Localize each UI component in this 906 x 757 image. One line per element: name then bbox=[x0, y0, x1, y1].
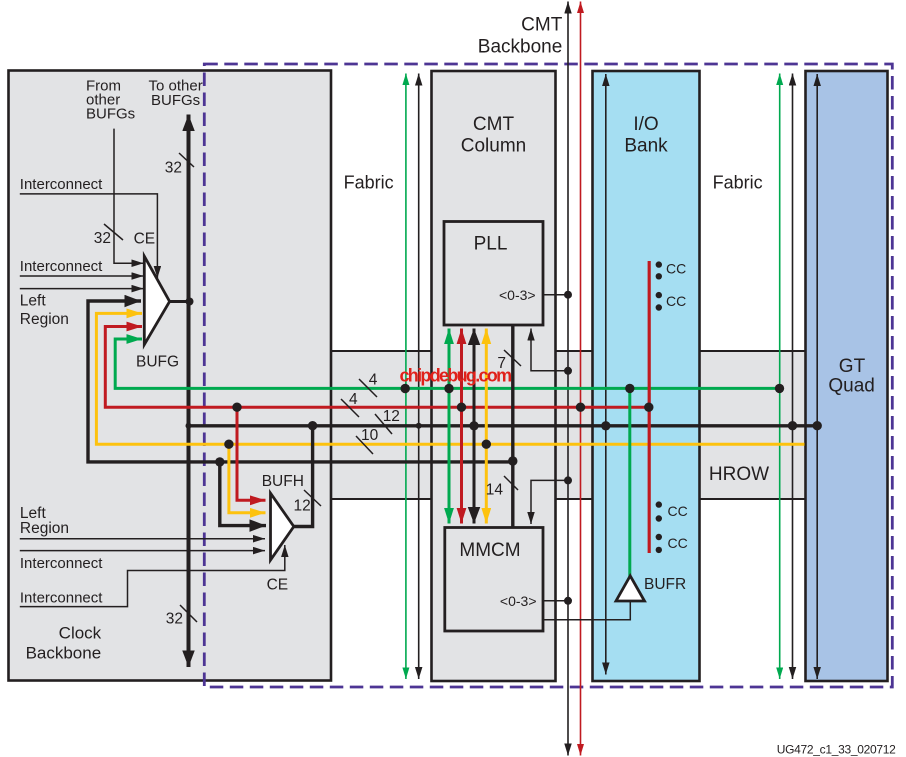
MMCM to BUFR wire bbox=[543, 601, 630, 620]
slash 32 from-other line bbox=[104, 224, 123, 240]
svg-text:UG472_c1_33_020712: UG472_c1_33_020712 bbox=[777, 743, 896, 757]
fabric2 green vertical arrow bbox=[779, 74, 781, 680]
svg-text:Backbone: Backbone bbox=[478, 36, 563, 57]
svg-text:GT: GT bbox=[839, 356, 866, 377]
yellow wire loop bbox=[96, 313, 804, 444]
BUFG CE wire bbox=[20, 194, 158, 278]
slash 12 BUFH riser bbox=[304, 490, 321, 506]
slash 4 red bbox=[341, 399, 359, 417]
green drop to BUFR bbox=[628, 388, 631, 577]
svg-text:CC: CC bbox=[666, 293, 686, 309]
svg-text:BUFGs: BUFGs bbox=[151, 92, 200, 109]
svg-text:<0-3>: <0-3> bbox=[499, 287, 536, 303]
GT quad black vertical arrow bbox=[816, 74, 818, 679]
label Clock Backbone bbox=[26, 624, 102, 663]
svg-text:CC: CC bbox=[668, 503, 688, 519]
svg-text:BUFH: BUFH bbox=[262, 473, 304, 490]
slash 32 spine bottom bbox=[180, 605, 197, 622]
black HROW horizontal 12 bbox=[189, 424, 818, 427]
GT Quad box bbox=[806, 71, 888, 681]
svg-text:CE: CE bbox=[134, 231, 156, 248]
BUFG interconnect input 2 bbox=[20, 275, 144, 277]
CMT backbone black vertical bbox=[567, 2, 569, 756]
svg-text:CMT: CMT bbox=[521, 15, 563, 36]
slash 12 black bbox=[375, 414, 392, 434]
label CMT Column bbox=[461, 114, 526, 157]
BUFG input from other BUFGs bbox=[114, 129, 144, 264]
green wire loop bbox=[115, 339, 779, 388]
svg-text:Backbone: Backbone bbox=[26, 644, 102, 663]
svg-text:Fabric: Fabric bbox=[713, 173, 763, 193]
svg-text:Fabric: Fabric bbox=[344, 173, 394, 193]
svg-text:Interconnect: Interconnect bbox=[20, 258, 103, 275]
svg-text:PLL: PLL bbox=[474, 234, 508, 255]
PLL 0-3 wire bbox=[543, 294, 568, 296]
svg-text:Interconnect: Interconnect bbox=[20, 590, 103, 607]
svg-text:14: 14 bbox=[486, 482, 504, 499]
svg-text:<0-3>: <0-3> bbox=[500, 593, 537, 609]
svg-text:4: 4 bbox=[349, 391, 358, 408]
PLL-MMCM green arrow bbox=[448, 329, 451, 524]
op BUFR triangle bbox=[616, 576, 645, 601]
svg-text:Region: Region bbox=[20, 311, 69, 328]
CMT Column box bbox=[432, 71, 556, 681]
svg-text:CE: CE bbox=[267, 576, 289, 593]
yellow drop to BUFH bbox=[229, 444, 266, 513]
fabric2 black vertical arrow bbox=[792, 74, 794, 680]
MMCM 0-3 wire bbox=[543, 600, 568, 602]
fabric1 green vertical arrow bbox=[405, 74, 407, 680]
svg-text:CC: CC bbox=[668, 535, 688, 551]
CC labels bbox=[666, 261, 688, 552]
svg-text:Quad: Quad bbox=[828, 376, 874, 397]
HROW strip bbox=[331, 351, 806, 499]
svg-text:12: 12 bbox=[383, 408, 400, 425]
BUFH CE wire bbox=[20, 545, 285, 607]
label GT Quad bbox=[828, 356, 874, 397]
red drop to BUFH bbox=[237, 407, 266, 500]
BUFG input 3 bbox=[20, 288, 144, 290]
CMT backbone red vertical bbox=[580, 2, 582, 756]
fabric1 black vertical arrow bbox=[418, 74, 420, 680]
Clock Backbone box bbox=[9, 71, 332, 681]
PLL-MMCM trunk bbox=[511, 325, 514, 528]
BUFH output riser 12 bbox=[293, 426, 313, 527]
BUFH thin input 2 bbox=[20, 550, 265, 552]
svg-text:Column: Column bbox=[461, 136, 526, 157]
I/O Bank box bbox=[593, 71, 700, 681]
svg-text:Region: Region bbox=[20, 520, 69, 537]
thick black drop to BUFH bbox=[220, 462, 266, 526]
svg-text:4: 4 bbox=[369, 372, 378, 389]
label CMT Backbone bbox=[478, 15, 563, 58]
svg-text:Interconnect: Interconnect bbox=[20, 555, 103, 572]
label To other BUFGs bbox=[149, 78, 203, 109]
slash 7 trunk bbox=[504, 350, 521, 366]
svg-text:MMCM: MMCM bbox=[459, 540, 520, 561]
slash 14 trunk bbox=[504, 476, 518, 490]
svg-text:Bank: Bank bbox=[624, 136, 668, 157]
svg-text:chipdebug.com: chipdebug.com bbox=[400, 366, 512, 386]
svg-text:12: 12 bbox=[294, 498, 311, 515]
label From other BUFGs bbox=[86, 78, 135, 123]
PLL-MMCM black arrow bbox=[473, 329, 476, 524]
svg-text:CMT: CMT bbox=[473, 114, 515, 135]
BUFG output stub bbox=[169, 300, 187, 303]
thick black loop wire to BUFG bbox=[88, 301, 513, 462]
clock backbone spine 32-bit bbox=[187, 115, 191, 668]
svg-text:32: 32 bbox=[166, 611, 183, 628]
label I/O Bank bbox=[624, 114, 668, 157]
slash 4 green bbox=[359, 379, 377, 397]
red wire loop bbox=[105, 327, 649, 408]
svg-text:10: 10 bbox=[361, 427, 379, 444]
svg-text:BUFG: BUFG bbox=[136, 354, 179, 371]
slash 10 yellow bbox=[356, 436, 373, 454]
I/O bank black vertical arrow bbox=[605, 74, 607, 675]
PLL-MMCM red arrow bbox=[460, 329, 463, 524]
svg-text:I/O: I/O bbox=[633, 114, 658, 135]
svg-text:Clock: Clock bbox=[59, 624, 102, 643]
svg-text:BUFR: BUFR bbox=[644, 576, 686, 593]
MMCM box bbox=[445, 528, 543, 632]
label Left Region 1 bbox=[20, 293, 69, 328]
svg-text:32: 32 bbox=[165, 160, 182, 177]
svg-text:BUFGs: BUFGs bbox=[86, 105, 135, 122]
svg-text:32: 32 bbox=[94, 230, 111, 247]
PLL box bbox=[444, 222, 543, 326]
svg-text:Left: Left bbox=[20, 293, 47, 310]
svg-text:Interconnect: Interconnect bbox=[20, 176, 103, 193]
CC dots upper group bbox=[656, 261, 662, 553]
PLL-MMCM yellow arrow bbox=[485, 329, 488, 524]
op BUFG triangle bbox=[144, 256, 169, 344]
purple dashed CMT backbone region bbox=[204, 64, 892, 687]
red CC line bbox=[648, 261, 651, 553]
MMCM input wire 14 bbox=[531, 480, 568, 524]
svg-text:CC: CC bbox=[666, 261, 686, 277]
BUFH thin input 1 bbox=[20, 538, 265, 540]
PLL input wire 7 bbox=[531, 329, 568, 371]
svg-text:HROW: HROW bbox=[709, 464, 769, 485]
op BUFH triangle bbox=[271, 493, 294, 560]
label Left Region 2 bbox=[20, 505, 69, 537]
slash 32 spine top bbox=[179, 153, 194, 167]
